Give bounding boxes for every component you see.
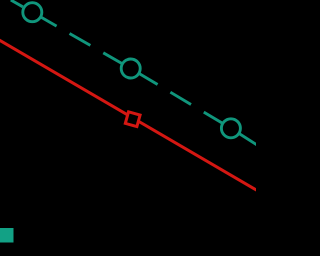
wire: teal dashed trace (11, 0, 258, 146)
node C: circle marker 3 (221, 119, 240, 138)
wire: red solid trace (0, 40, 257, 191)
node E: teal square swatch bottom-left (0, 228, 14, 243)
node B: circle marker 2 (121, 59, 140, 78)
node D: red square marker (125, 112, 140, 127)
node A: circle marker 1 (23, 3, 42, 22)
